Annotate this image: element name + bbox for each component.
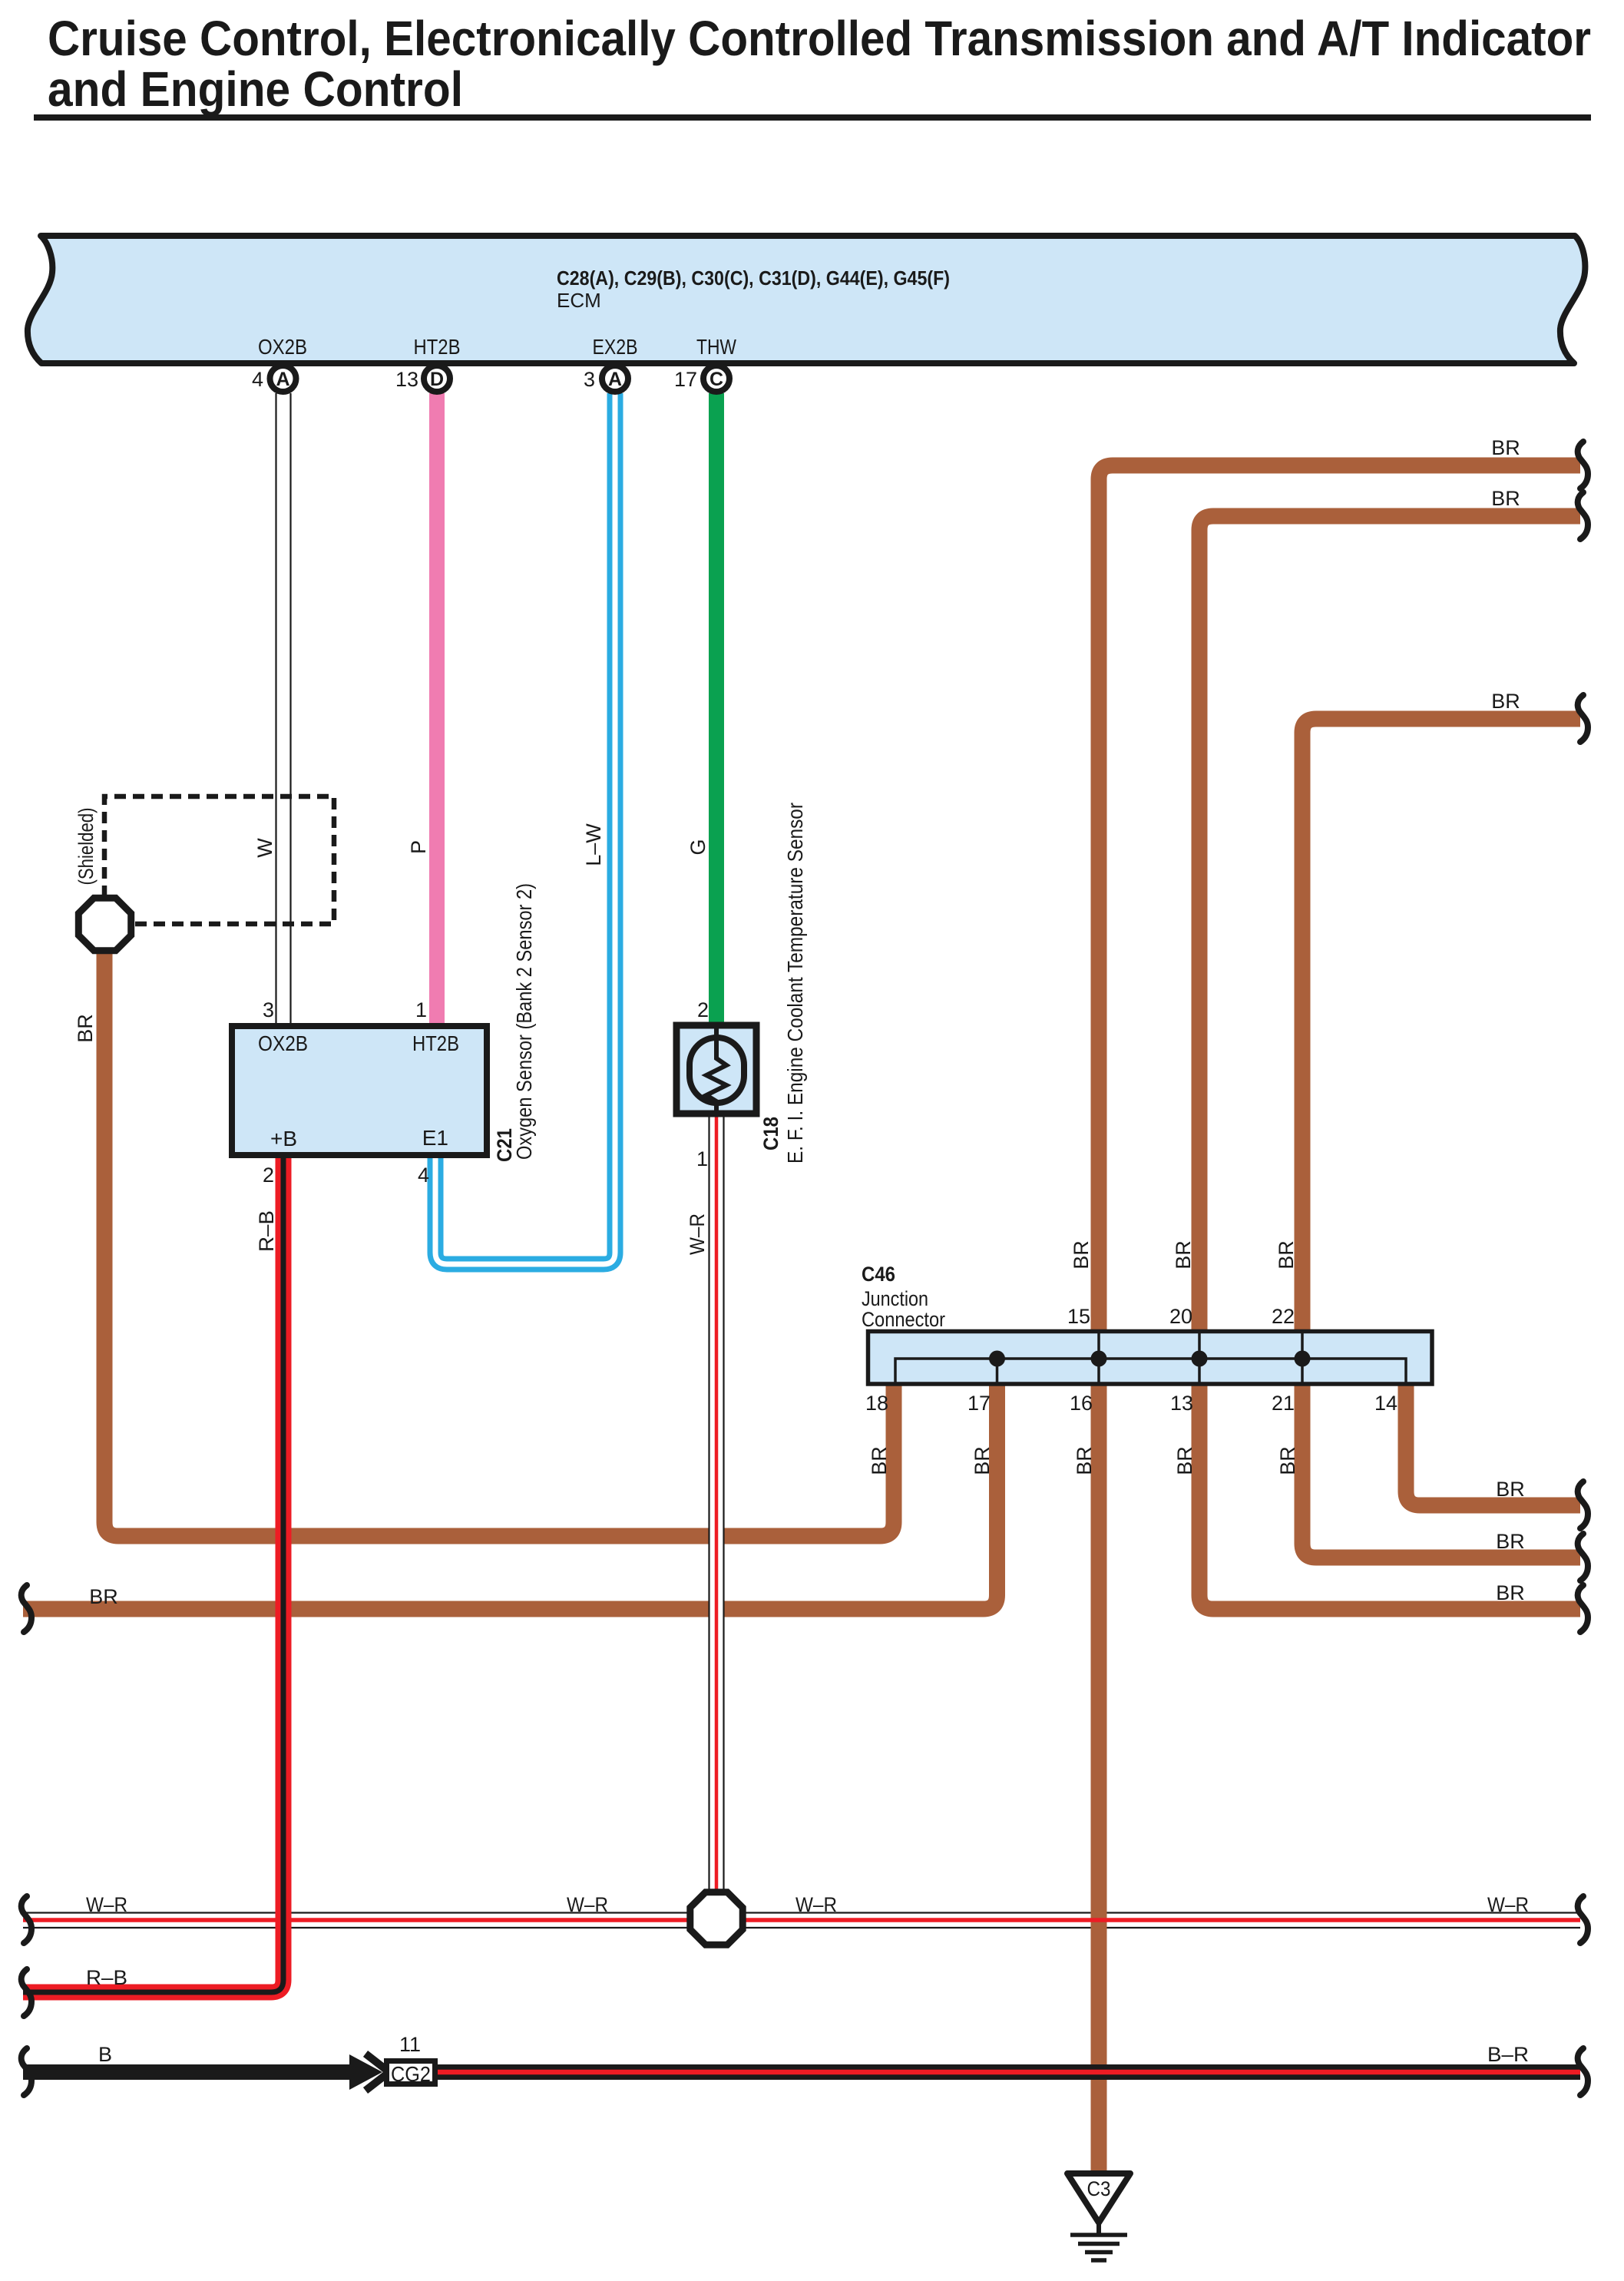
svg-text:E. F. I. Engine Coolant Tempe: E. F. I. Engine Coolant Temperature Sens… [783, 803, 807, 1164]
svg-text:C18: C18 [759, 1117, 782, 1150]
pin 13 D [424, 366, 450, 392]
svg-text:Junction: Junction [862, 1287, 928, 1310]
wire W-R vertical from C18 pin 1 to splice octagon [709, 1109, 724, 1900]
svg-text:(Shielded): (Shielded) [74, 808, 98, 886]
svg-text:13: 13 [1170, 1392, 1193, 1415]
svg-text:BR: BR [1491, 436, 1520, 459]
svg-text:CG2: CG2 [391, 2062, 431, 2086]
svg-text:P: P [407, 840, 430, 854]
title [34, 11, 1591, 121]
wire BR from shield octagon to C46 pin 18 [104, 951, 894, 1536]
svg-text:G: G [686, 839, 709, 855]
svg-text:W–R: W–R [1487, 1893, 1529, 1916]
svg-text:22: 22 [1272, 1305, 1295, 1328]
svg-text:BR: BR [1172, 1240, 1195, 1270]
svg-text:17: 17 [967, 1392, 991, 1415]
svg-text:BR: BR [1491, 487, 1520, 510]
C21 oxygen sensor box [232, 1026, 487, 1155]
svg-text:C: C [709, 369, 723, 390]
ECM pin circles [270, 366, 730, 392]
wire BR ECM-side top to C46 pin 15 and down from pin 16 to ground C3 [1099, 465, 1580, 1336]
C46 junction connector box [868, 1332, 1433, 1385]
C46 pin numbers [865, 1305, 1397, 1415]
W-R splice octagon [690, 1892, 743, 1945]
svg-text:THW: THW [696, 335, 736, 359]
svg-text:21: 21 [1272, 1392, 1295, 1415]
svg-text:R–B: R–B [86, 1966, 127, 1989]
pin 17 C [703, 366, 729, 392]
svg-text:HT2B: HT2B [412, 1031, 459, 1055]
svg-text:1: 1 [696, 1147, 708, 1170]
svg-text:C28(A), C29(B), C30(C), C31(D): C28(A), C29(B), C30(C), C31(D), G44(E), … [557, 267, 950, 290]
svg-text:3: 3 [584, 368, 595, 391]
svg-text:B–R: B–R [1487, 2043, 1529, 2066]
connector id labels [862, 1263, 945, 1331]
arrows into CG2 [349, 2054, 382, 2090]
shield octagon [78, 898, 131, 950]
svg-text:BR: BR [1173, 1446, 1196, 1475]
svg-text:C46: C46 [862, 1263, 895, 1286]
pin 3 A [602, 366, 628, 392]
svg-text:BR: BR [1276, 1446, 1299, 1475]
svg-text:B: B [98, 2043, 112, 2066]
svg-text:W–R: W–R [86, 1893, 127, 1916]
svg-text:4: 4 [418, 1164, 429, 1187]
svg-text:A: A [276, 369, 289, 390]
svg-text:EX2B: EX2B [593, 335, 638, 359]
svg-text:BR: BR [1491, 690, 1520, 713]
svg-text:2: 2 [263, 1164, 274, 1187]
wire W (white) ECM OX2B to C21 [276, 393, 291, 1031]
svg-text:BR: BR [971, 1446, 994, 1475]
svg-text:1: 1 [415, 998, 427, 1021]
svg-text:Cruise Control, Electronically: Cruise Control, Electronically Controlle… [48, 11, 1591, 66]
C46 internal bus [895, 1332, 1406, 1383]
C18 coolant temp sensor box [676, 1025, 756, 1114]
ground C3 [1067, 2173, 1130, 2223]
svg-text:BR: BR [1496, 1530, 1525, 1553]
svg-text:OX2B: OX2B [258, 335, 307, 359]
svg-text:+B: +B [270, 1127, 297, 1150]
svg-text:OX2B: OX2B [258, 1031, 308, 1055]
pin 4 A [270, 366, 296, 392]
svg-text:BR: BR [1070, 1240, 1093, 1270]
svg-text:ECM: ECM [557, 289, 601, 312]
svg-text:A: A [608, 369, 622, 390]
svg-text:3: 3 [263, 998, 274, 1021]
wire BR mid right to C46 pin 22, and pin 21 to right edge [1302, 719, 1580, 1336]
svg-text:E1: E1 [422, 1126, 448, 1150]
svg-text:W–R: W–R [686, 1213, 709, 1255]
svg-text:BR: BR [1275, 1240, 1298, 1270]
svg-text:C3: C3 [1087, 2177, 1111, 2200]
wire BR left edge to C46 pin 17 [23, 1379, 997, 1609]
svg-text:16: 16 [1070, 1392, 1093, 1415]
svg-text:and Engine Control: and Engine Control [48, 61, 463, 117]
svg-text:Oxygen Sensor (Bank 2 Sensor 2: Oxygen Sensor (Bank 2 Sensor 2) [512, 883, 536, 1160]
wire L-W from C21 E1 down, right, up to ECM EX2B [435, 393, 615, 1264]
wire R-B from C21 +B down and left to edge [23, 1150, 283, 1992]
svg-text:BR: BR [1496, 1581, 1525, 1604]
svg-text:BR: BR [868, 1446, 891, 1475]
svg-text:W–R: W–R [795, 1893, 837, 1916]
wire BR C46 pin 14 to right edge [1406, 1379, 1580, 1505]
wire break symbols left edge [21, 1585, 31, 2095]
svg-text:11: 11 [399, 2033, 421, 2056]
wire BR top right to C46 pin 20, and pin 13 to right edge [1199, 516, 1580, 1336]
svg-text:HT2B: HT2B [414, 335, 461, 359]
wire B-R from CG2 to right edge [438, 2064, 1580, 2080]
svg-text:15: 15 [1067, 1305, 1090, 1328]
wire break symbols right edge [1578, 442, 1588, 2095]
svg-text:R–B: R–B [255, 1210, 278, 1252]
svg-text:W: W [253, 838, 276, 858]
svg-text:4: 4 [252, 368, 263, 391]
wire W-R horizontal red stripe [23, 1918, 1580, 1922]
svg-text:L–W: L–W [582, 823, 605, 866]
shield dashed box [104, 796, 334, 924]
svg-text:2: 2 [697, 998, 709, 1021]
ECM connector band [28, 236, 1585, 363]
C46 bus junction dots [989, 1351, 1311, 1367]
svg-text:BR: BR [74, 1014, 97, 1043]
wire P (pink) ECM HT2B to C21 [429, 393, 445, 1031]
wire G (green) ECM THW to C18 [709, 393, 724, 1030]
thermistor symbol [690, 1038, 744, 1103]
svg-text:BR: BR [1073, 1446, 1096, 1475]
wire B from left edge to CG2 [23, 2064, 349, 2080]
svg-text:14: 14 [1374, 1392, 1397, 1415]
svg-text:D: D [430, 369, 444, 390]
svg-text:BR: BR [1496, 1478, 1525, 1501]
svg-text:20: 20 [1169, 1305, 1192, 1328]
svg-text:Connector: Connector [862, 1308, 945, 1331]
svg-text:17: 17 [674, 368, 697, 391]
wire W-R horizontal outline hairlines [23, 1913, 1580, 1928]
rotated wire labels [74, 808, 1299, 1475]
svg-text:BR: BR [89, 1585, 118, 1608]
svg-text:18: 18 [865, 1392, 888, 1415]
svg-text:13: 13 [395, 368, 418, 391]
svg-text:W–R: W–R [567, 1893, 608, 1916]
horizontal wire labels [86, 436, 1529, 2066]
CG2 connector box [387, 2061, 435, 2084]
